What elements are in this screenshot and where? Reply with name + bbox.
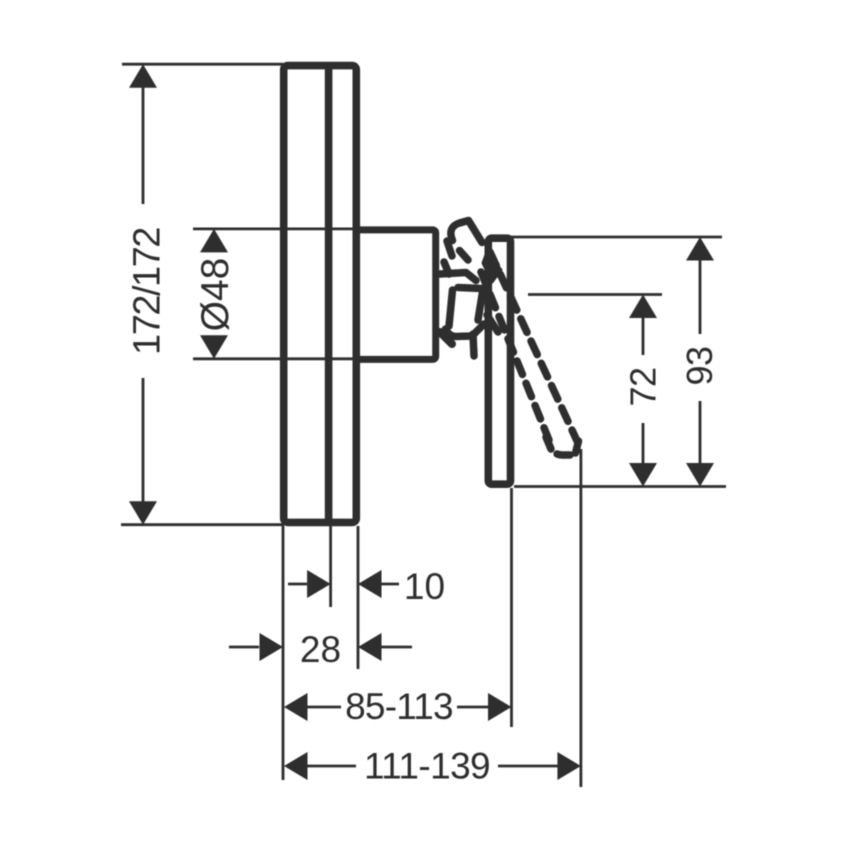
svg-text:172/172: 172/172 [127,228,169,355]
arrow up (93 top) [686,237,714,261]
dimension 10 (y=584) [288,583,307,586]
extension line below plate right edge (x=358) [357,526,360,669]
wall plate inner divider line [325,62,333,526]
arrow up (172/172 top) [129,64,157,88]
dimension 111-139 (y=765.5) [284,752,308,780]
handle mechanism knot [440,221,498,357]
svg-text:72: 72 [623,367,664,406]
dimension 85-113 (y=707) [284,693,308,721]
escutcheon bar (handle base) [488,238,510,484]
extension line Ø48 bottom (y=358.8) [193,357,360,360]
extension line top of plate (y=64) [122,63,283,66]
extension line Ø48 top (y=229) [193,227,360,230]
extension line 72 top (y=294.5) [528,293,662,296]
arrow up (Ø48 top) [200,229,228,253]
arrow up (72 top) [629,295,657,319]
wall plate outer rectangle [284,66,357,523]
svg-text:28: 28 [300,629,341,670]
dimension 28 (y=647) [229,646,259,649]
dashed lever (alternate position) [481,252,579,455]
extension line bottom of plate (y=525) [121,523,284,526]
dimension 93 vertical line [699,253,702,334]
arrow down (Ø48 bottom) [200,335,228,359]
arrow down (93 bottom) [686,463,714,487]
extension line below plate left edge (x=283) [282,526,285,780]
extension line below escutcheon (x=511.5) [510,488,513,727]
svg-text:93: 93 [679,346,720,385]
valve body box [356,230,435,360]
svg-text:Ø48: Ø48 [194,258,237,332]
extension line 93 top (y=237) [511,236,722,239]
extension line below lever tip (x=580.5) [580,449,583,787]
dimension 72 vertical line [642,310,645,355]
arrow down (172/172 bottom) [129,501,157,525]
svg-text:85-113: 85-113 [345,686,453,727]
extension line below plate inner divider (x=330.6) [329,526,332,607]
dimension 172/172 vertical line [142,80,145,204]
extension line shared bottom (y=486.5) [514,485,726,488]
solid lever lower end wedge [483,252,501,282]
svg-text:10: 10 [404,566,445,607]
svg-text:111-139: 111-139 [364,746,490,787]
arrow down (72 bottom) [629,463,657,487]
